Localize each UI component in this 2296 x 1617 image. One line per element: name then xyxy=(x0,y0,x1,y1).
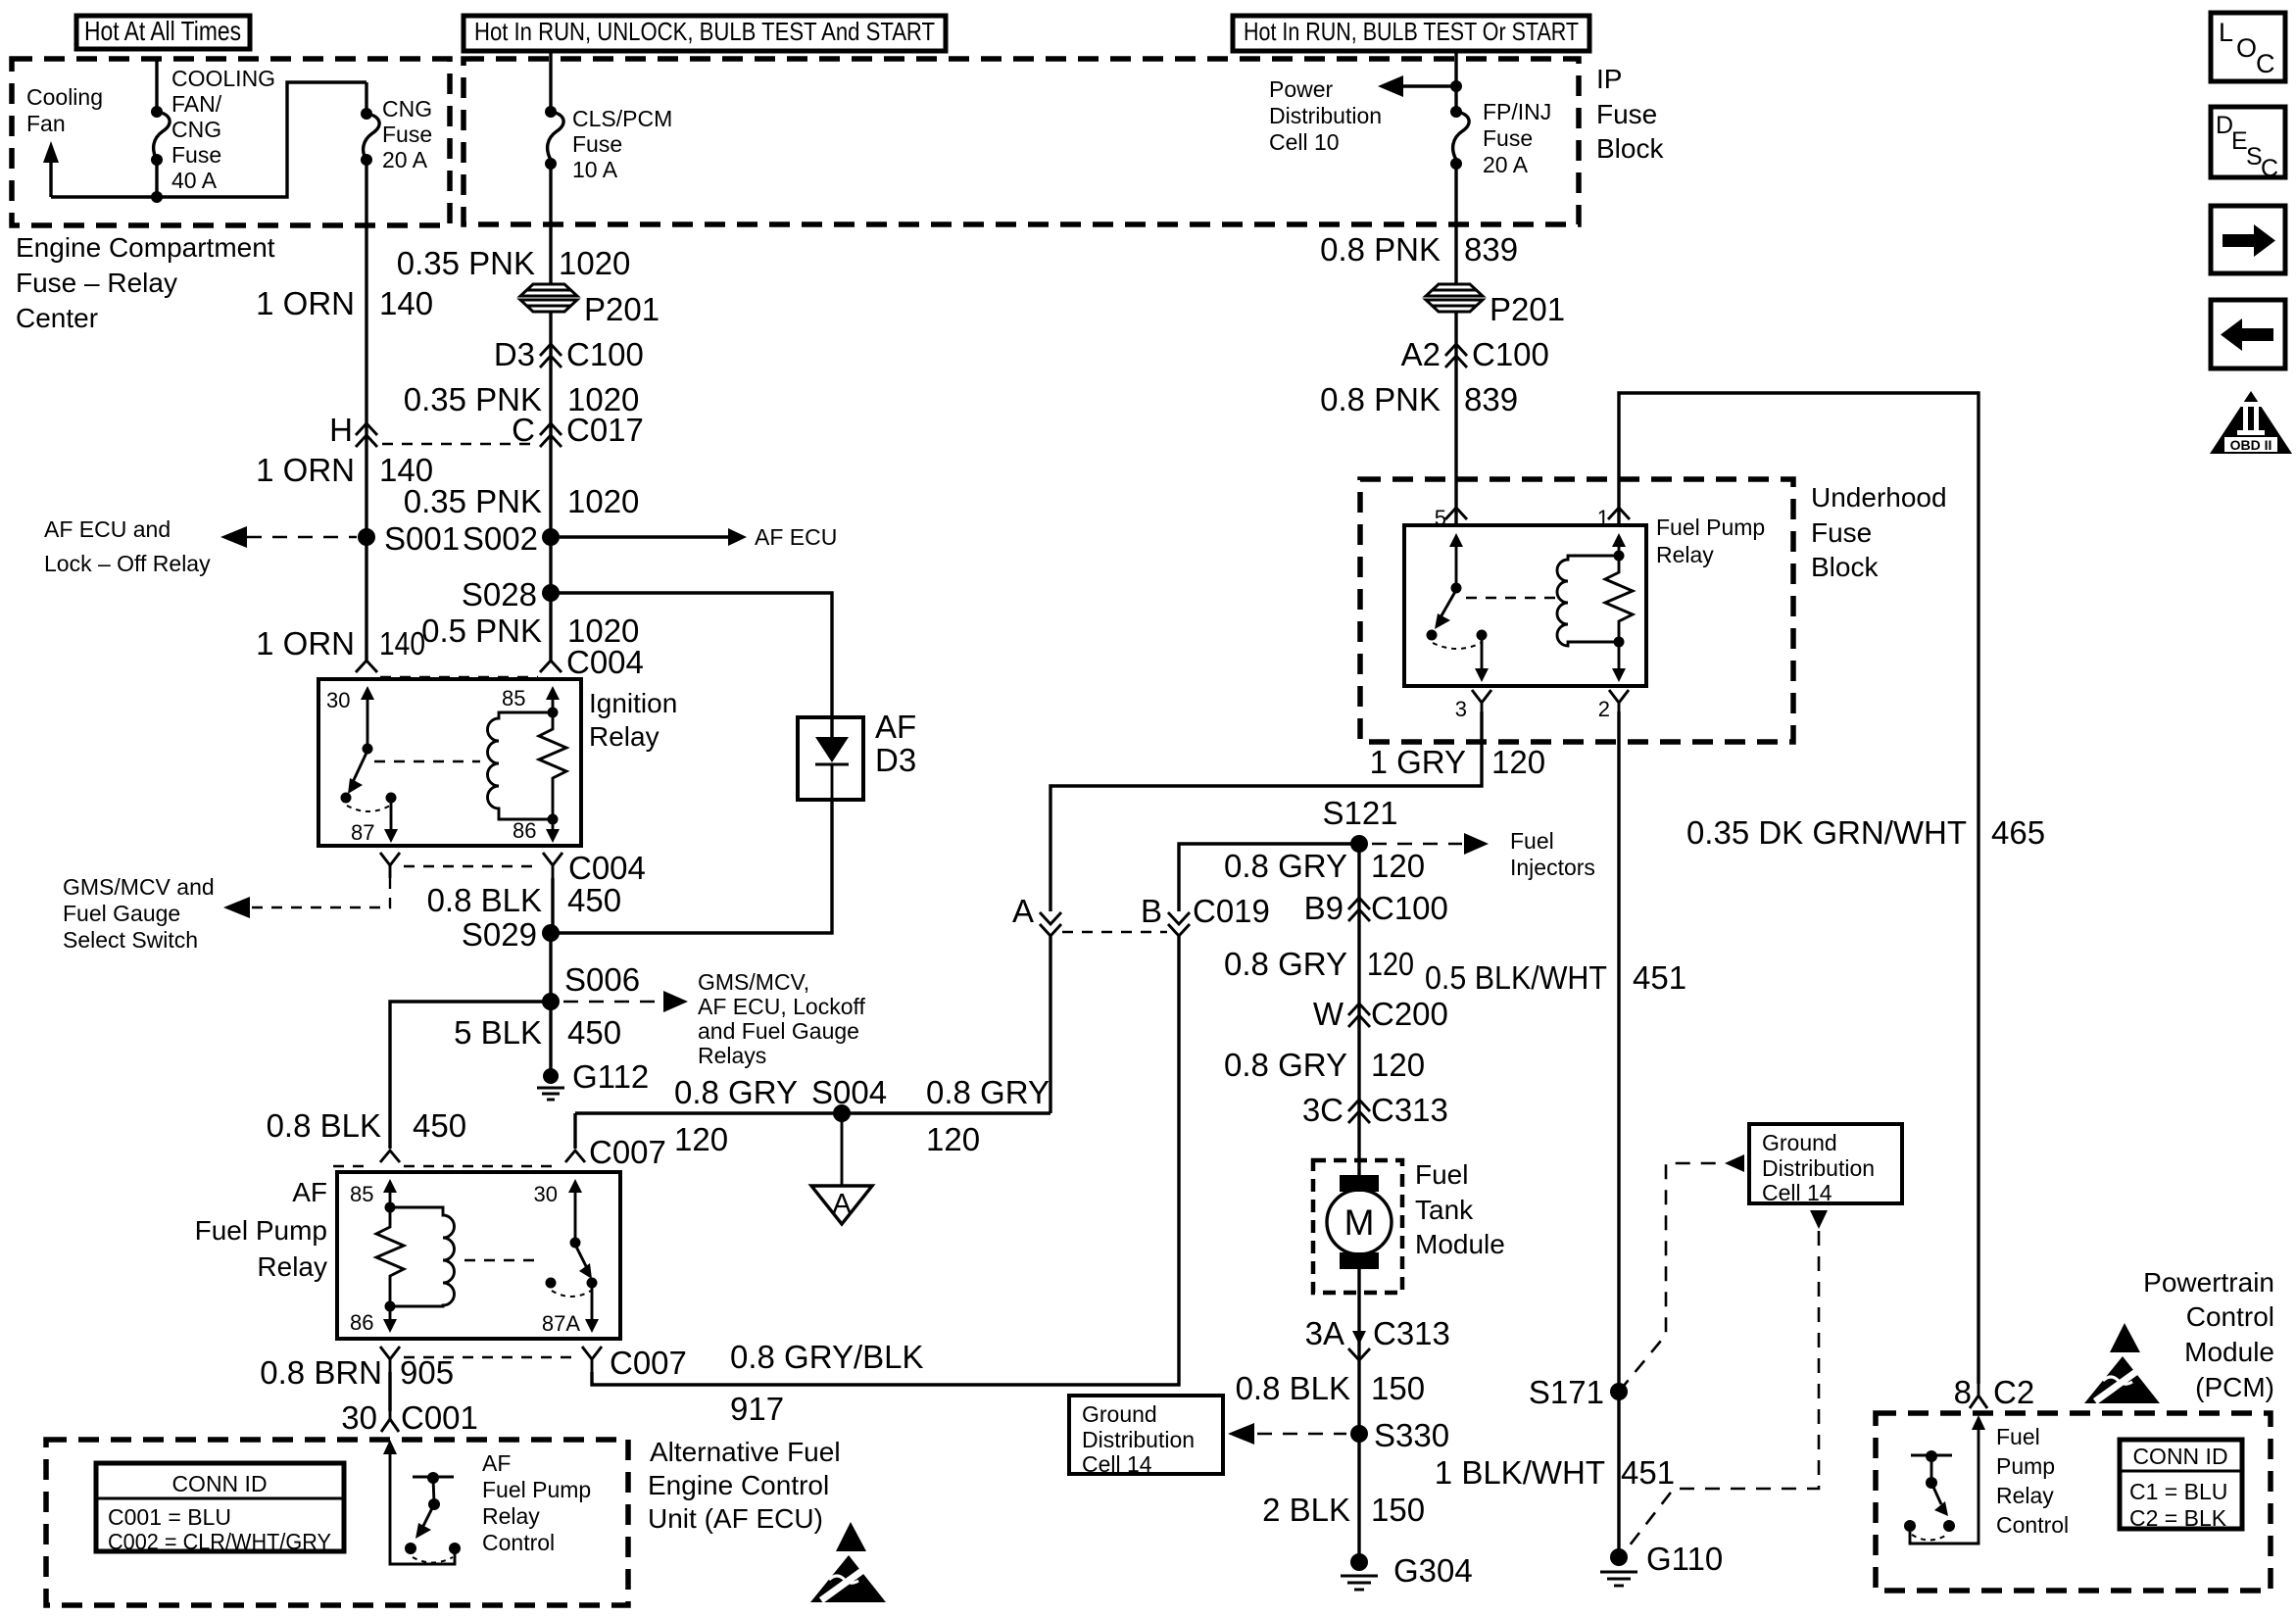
PCM dashed box xyxy=(1876,1413,2271,1591)
svg-text:AF ECU and: AF ECU and xyxy=(44,516,171,542)
svg-text:86: 86 xyxy=(350,1310,373,1335)
ignition relay coil bottom node xyxy=(548,814,559,825)
AF relay pin 86 xyxy=(350,1306,397,1335)
svg-text:A: A xyxy=(832,1189,852,1220)
svg-text:Engine Control: Engine Control xyxy=(648,1470,829,1500)
svg-text:C004: C004 xyxy=(566,644,644,680)
svg-text:GMS/MCV and: GMS/MCV and xyxy=(63,874,215,900)
svg-text:Fuse: Fuse xyxy=(1483,125,1533,151)
ignition relay pin 86 xyxy=(513,818,560,843)
svg-text:Module: Module xyxy=(2184,1337,2274,1367)
svg-text:S029: S029 xyxy=(462,916,537,953)
svg-text:C: C xyxy=(2261,155,2278,182)
svg-text:AF: AF xyxy=(292,1177,327,1207)
svg-text:85: 85 xyxy=(502,686,525,710)
splice S171 xyxy=(1529,1374,1628,1410)
wire below P201 xyxy=(549,311,552,662)
wire: S121 branch to C019 B xyxy=(1179,844,1359,911)
label: CNG Fuse 20 A xyxy=(382,96,432,172)
svg-text:150: 150 xyxy=(1371,1370,1425,1406)
Underhood Fuse Block dashed box xyxy=(1360,479,1793,742)
splice S006 xyxy=(542,961,640,1010)
svg-text:Fuel Pump: Fuel Pump xyxy=(195,1215,327,1246)
svg-text:Fuse – Relay: Fuse – Relay xyxy=(16,268,177,298)
svg-text:CLS/PCM: CLS/PCM xyxy=(572,106,672,131)
svg-text:Tank: Tank xyxy=(1415,1195,1474,1225)
svg-text:150: 150 xyxy=(1371,1492,1425,1528)
connector C019 A xyxy=(1012,893,1061,936)
dashed reference arrow to Fuel Injectors xyxy=(1372,828,1595,880)
wire: S028 to diode AF D3 xyxy=(551,593,832,737)
diode AF D3 xyxy=(798,709,916,800)
connector D3 C100 xyxy=(494,336,644,372)
svg-text:20 A: 20 A xyxy=(1483,152,1529,177)
svg-text:0.8 GRY/BLK: 0.8 GRY/BLK xyxy=(730,1339,924,1375)
Ground Distribution Cell 14 box (left) xyxy=(1069,1396,1223,1477)
icon: left arrow xyxy=(2211,300,2285,368)
wire: 0.8 BRN 905 xyxy=(388,1372,391,1411)
svg-text:(PCM): (PCM) xyxy=(2195,1372,2274,1402)
svg-text:Block: Block xyxy=(1811,552,1879,582)
svg-text:Control: Control xyxy=(482,1530,555,1555)
svg-text:C007: C007 xyxy=(610,1345,687,1381)
svg-text:GMS/MCV,: GMS/MCV, xyxy=(698,969,809,995)
AF ECU relay control switch xyxy=(405,1472,461,1563)
svg-text:Relay: Relay xyxy=(257,1251,327,1282)
svg-text:120: 120 xyxy=(1371,848,1425,884)
svg-text:Relay: Relay xyxy=(589,721,659,752)
label box: Hot In RUN, BULB TEST Or START xyxy=(1233,16,1589,51)
svg-text:Relays: Relays xyxy=(698,1043,766,1068)
icon: LOC xyxy=(2211,13,2285,81)
svg-text:FAN/: FAN/ xyxy=(171,91,222,117)
fuse: CLS/PCM Fuse 10 A xyxy=(545,51,563,170)
Fuel Tank Module dashed box xyxy=(1313,1160,1402,1293)
label: 1 ORN 140 (lower) xyxy=(256,625,425,661)
connector C004 (relay top) xyxy=(356,644,644,680)
svg-text:1020: 1020 xyxy=(567,483,639,519)
fuel pump relay pin 1 xyxy=(1597,506,1630,562)
label: CLS/PCM Fuse 10 A xyxy=(572,106,672,182)
label: AF ECU and Lock-Off Relay xyxy=(44,516,211,576)
svg-text:Hot In RUN, UNLOCK, BULB TEST: Hot In RUN, UNLOCK, BULB TEST And START xyxy=(474,17,935,46)
svg-text:Center: Center xyxy=(16,303,98,333)
connector C019 jumper xyxy=(1062,931,1167,933)
label: 0.5 BLK/WHT 451 xyxy=(1425,959,1686,996)
svg-text:P201: P201 xyxy=(1490,291,1565,327)
fuel pump relay actuator dashed link xyxy=(1466,597,1560,599)
svg-text:Distribution: Distribution xyxy=(1082,1427,1195,1452)
icon: DESC xyxy=(2211,107,2285,182)
wire: 0.35 PNK 1020 (to P201) xyxy=(549,164,552,284)
CONN ID table (AF ECU) xyxy=(96,1463,344,1554)
svg-text:C100: C100 xyxy=(566,336,644,372)
wire: cooling fan feed xyxy=(51,82,366,197)
svg-text:451: 451 xyxy=(1621,1454,1675,1491)
svg-text:Fuse: Fuse xyxy=(382,122,432,147)
PCM fuel pump relay control switch xyxy=(1904,1450,1955,1541)
ignition relay switch arm xyxy=(341,751,397,811)
splice S330 xyxy=(1350,1417,1449,1453)
fuel pump relay pin 5 xyxy=(1435,506,1467,594)
arrow: S002 to AF ECU xyxy=(551,524,837,550)
svg-text:0.8 GRY: 0.8 GRY xyxy=(1224,946,1347,982)
label: 0.8 BLK 450 (2nd) xyxy=(267,1107,466,1144)
svg-text:CONN ID: CONN ID xyxy=(171,1471,267,1496)
svg-text:0.8 GRY: 0.8 GRY xyxy=(1224,1047,1347,1083)
AF relay coil xyxy=(390,1207,455,1306)
wire: 0.8 GRY/BLK 917 (87A to C019 B) xyxy=(592,935,1179,1385)
svg-text:120: 120 xyxy=(674,1121,728,1157)
label: 0.8 BLK 150 xyxy=(1236,1370,1425,1406)
svg-text:W: W xyxy=(1313,996,1344,1032)
svg-text:CNG: CNG xyxy=(171,117,221,142)
svg-text:Fuse: Fuse xyxy=(572,131,622,157)
svg-text:0.35 PNK: 0.35 PNK xyxy=(404,483,542,519)
splice S004 xyxy=(811,1074,887,1122)
wire: S004 branch down to AF relay pin 30 xyxy=(573,1113,576,1149)
label: Engine Compartment Fuse-Relay Center xyxy=(16,232,275,333)
arrow: Power Distribution Cell 10 xyxy=(1378,75,1462,97)
svg-text:C100: C100 xyxy=(1472,336,1549,372)
splice S002 xyxy=(463,520,560,557)
AF relay pin 85 xyxy=(350,1179,397,1213)
fuse: FP/INJ Fuse 20 A xyxy=(1450,51,1469,170)
svg-text:AF: AF xyxy=(875,709,916,745)
splice S028 xyxy=(462,576,560,612)
svg-text:1 ORN: 1 ORN xyxy=(256,285,355,321)
svg-text:0.8 BLK: 0.8 BLK xyxy=(267,1107,381,1144)
relay: AF Fuel Pump Relay box xyxy=(337,1172,620,1339)
svg-text:120: 120 xyxy=(1367,946,1414,982)
svg-text:0.8 BLK: 0.8 BLK xyxy=(1236,1370,1350,1406)
svg-text:Engine Compartment: Engine Compartment xyxy=(16,232,275,263)
Ground Distribution Cell 14 box (right) xyxy=(1749,1124,1902,1205)
svg-text:C1 = BLU: C1 = BLU xyxy=(2129,1479,2227,1504)
label box: Hot At All Times xyxy=(76,16,250,49)
connector B9 C100 xyxy=(1304,890,1448,926)
svg-text:OBD II: OBD II xyxy=(2230,437,2272,453)
splice S001 xyxy=(358,520,460,557)
ground G110 xyxy=(1600,1541,1723,1586)
connector C019 B xyxy=(1141,893,1270,936)
label: 5 BLK 450 xyxy=(454,1014,621,1051)
svg-text:B9: B9 xyxy=(1304,890,1343,926)
fuel pump motor M xyxy=(1327,1175,1392,1269)
connector W C200 xyxy=(1313,996,1448,1032)
wire: 0.8 GRY 120 column xyxy=(1357,844,1360,1176)
ignition relay pin 85 xyxy=(502,686,560,718)
label: 1 BLK/WHT 451 xyxy=(1435,1454,1675,1491)
label: COOLING FAN/CNG Fuse 40 A xyxy=(171,66,275,193)
svg-text:Hot In RUN, BULB TEST Or START: Hot In RUN, BULB TEST Or START xyxy=(1244,17,1579,46)
svg-text:FP/INJ: FP/INJ xyxy=(1483,99,1551,124)
svg-text:2: 2 xyxy=(1598,697,1610,721)
label: Fuel Pump Relay Control xyxy=(1996,1424,2069,1538)
ground G304 xyxy=(1341,1552,1473,1590)
svg-text:Fuel: Fuel xyxy=(1510,828,1554,854)
ESD symbol (AF ECU) xyxy=(810,1522,886,1602)
IP Fuse Block dashed box xyxy=(464,59,1579,224)
connector 3C C313 xyxy=(1302,1092,1448,1128)
wire: 0.8 PNK 839 xyxy=(1454,164,1457,284)
svg-text:3C: 3C xyxy=(1302,1092,1343,1128)
label: 0.8 GRY/BLK 917 xyxy=(730,1339,924,1427)
svg-text:D3: D3 xyxy=(875,742,916,778)
svg-text:Fuse: Fuse xyxy=(1596,99,1657,129)
ground G112 xyxy=(537,1058,649,1100)
svg-text:0.8 GRY: 0.8 GRY xyxy=(926,1074,1050,1110)
svg-text:Cell 14: Cell 14 xyxy=(1082,1451,1152,1477)
wire: into AF ECU (relay control) xyxy=(383,1440,455,1564)
connector C (C017) xyxy=(512,412,644,448)
svg-text:Fuel Pump: Fuel Pump xyxy=(482,1477,591,1502)
svg-text:S121: S121 xyxy=(1322,795,1397,831)
svg-text:3A: 3A xyxy=(1305,1315,1344,1351)
label: 0.8 GRY 120 (c) xyxy=(1224,1047,1425,1083)
label: 0.35 PNK 1020 (2nd) xyxy=(404,381,640,417)
splice S029 xyxy=(462,916,560,953)
svg-text:0.35 DK GRN/WHT: 0.35 DK GRN/WHT xyxy=(1686,814,1967,851)
ESD symbol (PCM) xyxy=(2084,1323,2160,1403)
svg-text:Pump: Pump xyxy=(1996,1453,2055,1479)
svg-text:450: 450 xyxy=(567,1014,621,1051)
svg-text:S002: S002 xyxy=(463,520,538,557)
svg-text:Underhood: Underhood xyxy=(1811,482,1947,513)
svg-text:C007: C007 xyxy=(589,1134,666,1170)
fuse: CNG Fuse 20 A xyxy=(361,82,379,166)
svg-text:Cell 14: Cell 14 xyxy=(1762,1180,1832,1205)
svg-text:0.8 PNK: 0.8 PNK xyxy=(1320,381,1441,417)
connector C007 (AF relay top) xyxy=(333,1134,666,1170)
svg-text:1 BLK/WHT: 1 BLK/WHT xyxy=(1435,1454,1605,1491)
relay: Ignition Relay box xyxy=(318,679,581,846)
connector 3A C313 xyxy=(1305,1315,1450,1360)
label: 1 ORN 140 (mid) xyxy=(256,452,433,488)
label: GMS/MCV, AF ECU, Lockoff and Fuel Gauge Relays xyxy=(698,969,865,1068)
svg-text:C200: C200 xyxy=(1371,996,1448,1032)
dashed reference: S171 to Ground Distribution Cell 14 xyxy=(1619,1154,1744,1392)
svg-text:C002 = CLR/WHT/GRY: C002 = CLR/WHT/GRY xyxy=(108,1529,331,1554)
ignition relay coil xyxy=(487,712,553,819)
svg-text:C313: C313 xyxy=(1373,1315,1450,1351)
wire: 0.8 GRY 120 S004 run xyxy=(575,1111,1050,1114)
svg-text:C100: C100 xyxy=(1371,890,1448,926)
svg-text:and Fuel Gauge: and Fuel Gauge xyxy=(698,1018,859,1044)
label: AF Fuel Pump Relay Control xyxy=(482,1450,591,1555)
fuel pump relay pin 3 xyxy=(1455,637,1491,721)
svg-text:10 A: 10 A xyxy=(572,157,618,182)
svg-text:30: 30 xyxy=(326,688,350,712)
dashed reference arrow to GMS/MCV and Fuel Gauge Select Switch xyxy=(223,878,390,918)
svg-text:1020: 1020 xyxy=(559,245,630,281)
svg-text:H: H xyxy=(329,412,353,448)
AF relay coil bottom node xyxy=(385,1301,396,1312)
svg-text:Hot At All Times: Hot At All Times xyxy=(84,16,241,46)
wire: fuel pump relay pin 1 to PCM feed xyxy=(1619,393,1978,1384)
svg-text:G304: G304 xyxy=(1393,1552,1473,1589)
AF relay pin 30 xyxy=(534,1179,582,1249)
svg-text:905: 905 xyxy=(400,1354,454,1391)
wire below P201 (right) xyxy=(1454,311,1457,525)
svg-text:S330: S330 xyxy=(1374,1417,1449,1453)
connector 30 C001 xyxy=(341,1399,478,1436)
svg-text:G112: G112 xyxy=(572,1058,649,1095)
wire: C019 A to S004 run xyxy=(1049,936,1051,1113)
svg-text:Relay: Relay xyxy=(1656,542,1714,567)
fuel pump relay switch arm xyxy=(1427,590,1488,649)
label: 0.8 PNK 839 xyxy=(1320,231,1518,268)
svg-text:Fuel Pump: Fuel Pump xyxy=(1656,514,1765,540)
svg-text:120: 120 xyxy=(1371,1047,1425,1083)
arrow to Cooling Fan xyxy=(43,141,59,197)
label: 0.8 PNK 839 (2nd) xyxy=(1320,381,1518,417)
svg-text:Powertrain: Powertrain xyxy=(2143,1267,2274,1298)
svg-text:Fuel: Fuel xyxy=(1996,1424,2040,1449)
off-page triangle A xyxy=(811,1113,872,1224)
connector C007 (AF relay bottom) xyxy=(380,1345,687,1381)
svg-text:Relay: Relay xyxy=(482,1503,540,1529)
label: Powertrain Control Module (PCM) xyxy=(2143,1267,2274,1402)
label: 2 BLK 150 xyxy=(1262,1492,1425,1528)
svg-text:85: 85 xyxy=(350,1182,373,1206)
svg-text:A: A xyxy=(1012,893,1034,929)
svg-text:5: 5 xyxy=(1435,506,1446,530)
svg-text:450: 450 xyxy=(567,882,621,918)
svg-text:C2 = BLK: C2 = BLK xyxy=(2129,1505,2227,1531)
label: Power Distribution Cell 10 xyxy=(1269,76,1382,155)
svg-text:Ground: Ground xyxy=(1762,1130,1837,1155)
svg-text:140: 140 xyxy=(379,285,433,321)
svg-text:2 BLK: 2 BLK xyxy=(1262,1492,1350,1528)
svg-text:451: 451 xyxy=(1633,959,1686,996)
label: Underhood Fuse Block xyxy=(1811,482,1947,582)
Engine Compartment Fuse-Relay Center dashed box xyxy=(12,59,450,225)
svg-text:Power: Power xyxy=(1269,76,1334,102)
svg-text:Lock – Off Relay: Lock – Off Relay xyxy=(44,551,211,576)
svg-text:Ignition: Ignition xyxy=(589,688,677,718)
svg-text:87A: 87A xyxy=(542,1311,580,1336)
svg-text:1: 1 xyxy=(1597,506,1609,530)
svg-text:S028: S028 xyxy=(462,576,537,612)
CONN ID table (PCM) xyxy=(2120,1440,2242,1531)
label: Fuel Pump Relay xyxy=(1656,514,1765,567)
fuel pump relay coil bottom node xyxy=(1614,637,1625,648)
connector H (C017) xyxy=(329,412,377,448)
label box: Hot In RUN, UNLOCK, BULB TEST And START xyxy=(464,16,946,51)
connector A2 C100 xyxy=(1401,336,1549,372)
svg-text:917: 917 xyxy=(730,1391,784,1427)
svg-text:0.8 GRY: 0.8 GRY xyxy=(1224,848,1347,884)
svg-text:1 GRY: 1 GRY xyxy=(1370,744,1466,780)
svg-text:0.35 PNK: 0.35 PNK xyxy=(397,245,535,281)
svg-text:Injectors: Injectors xyxy=(1510,855,1595,880)
svg-text:0.8 BRN: 0.8 BRN xyxy=(260,1354,382,1391)
label: 1 GRY 120 xyxy=(1370,744,1546,780)
svg-text:C001 = BLU: C001 = BLU xyxy=(108,1504,231,1530)
inline connector P201 (left) xyxy=(520,284,659,327)
label: 0.35 PNK 1020 (3rd) xyxy=(404,483,640,519)
svg-text:1 ORN: 1 ORN xyxy=(256,625,355,661)
label: GMS/MCV and Fuel Gauge Select Switch xyxy=(63,874,215,953)
icon: right arrow xyxy=(2211,206,2285,273)
svg-text:Cell 10: Cell 10 xyxy=(1269,129,1340,155)
wire: S006 left to AF relay pin 85 xyxy=(390,1002,551,1149)
svg-text:C017: C017 xyxy=(566,412,644,448)
svg-text:S001: S001 xyxy=(384,520,460,557)
svg-text:C019: C019 xyxy=(1193,893,1270,929)
svg-text:P201: P201 xyxy=(584,291,659,327)
icon: OBD II triangle xyxy=(2210,391,2292,454)
wire: 0.8 BLK 450 (pin 86 to S029) xyxy=(551,878,554,933)
svg-text:1 ORN: 1 ORN xyxy=(256,452,355,488)
svg-text:20 A: 20 A xyxy=(382,147,428,172)
svg-text:G110: G110 xyxy=(1646,1541,1723,1577)
svg-text:0.5 PNK: 0.5 PNK xyxy=(421,612,542,649)
svg-text:8: 8 xyxy=(1954,1374,1972,1410)
label: 1 ORN 140 (upper) xyxy=(256,285,433,321)
AF relay actuator dashed link xyxy=(464,1259,541,1261)
svg-text:40 A: 40 A xyxy=(171,168,218,193)
svg-text:M: M xyxy=(1344,1202,1375,1243)
label: IP Fuse Block xyxy=(1596,64,1664,164)
svg-text:AF ECU: AF ECU xyxy=(755,524,837,550)
svg-text:120: 120 xyxy=(1491,744,1545,780)
svg-text:0.8 PNK: 0.8 PNK xyxy=(1320,231,1441,268)
label: 0.35 PNK 1020 xyxy=(397,245,631,281)
dashed reference: Ground Distribution Cell 14 to G110 xyxy=(1626,1210,1828,1550)
svg-text:S004: S004 xyxy=(811,1074,887,1110)
label: Ignition Relay xyxy=(589,688,677,752)
wire: 5 BLK 450 (S029 to G112) xyxy=(549,933,552,1076)
svg-text:30: 30 xyxy=(534,1182,558,1206)
ignition relay pin 87 xyxy=(351,800,398,845)
svg-text:S171: S171 xyxy=(1529,1374,1604,1410)
fuse: COOLING FAN/CNG Fuse 40 A xyxy=(151,59,170,203)
svg-text:C: C xyxy=(512,412,535,448)
svg-text:C001: C001 xyxy=(401,1399,478,1436)
label: AF Fuel Pump Relay xyxy=(195,1177,327,1282)
fuel pump relay coil xyxy=(1557,556,1619,646)
fuel pump relay pin 2 xyxy=(1598,642,1629,721)
dashed reference arrow to GMS/MCV, AF ECU, Lockoff and Fuel Gauge Relays xyxy=(563,991,688,1012)
svg-text:C2: C2 xyxy=(1993,1374,2034,1410)
svg-text:Alternative Fuel: Alternative Fuel xyxy=(650,1437,841,1467)
wire: into PCM (fuel pump relay control) xyxy=(1910,1415,1985,1543)
connector boundary dashes H-C xyxy=(382,443,539,445)
svg-text:COOLING: COOLING xyxy=(171,66,275,91)
wire: 1 ORN 140 xyxy=(365,160,367,662)
svg-text:Fan: Fan xyxy=(26,111,66,136)
label: 0.35 DK GRN/WHT 465 xyxy=(1686,814,2045,851)
svg-text:Block: Block xyxy=(1596,133,1664,164)
svg-text:839: 839 xyxy=(1464,231,1518,268)
AF ECU dashed box xyxy=(46,1440,628,1605)
svg-text:5 BLK: 5 BLK xyxy=(454,1014,542,1051)
svg-text:CONN ID: CONN ID xyxy=(2132,1444,2227,1469)
svg-text:87: 87 xyxy=(351,820,374,845)
svg-text:0.5 BLK/WHT: 0.5 BLK/WHT xyxy=(1425,959,1607,996)
svg-text:Module: Module xyxy=(1415,1229,1505,1259)
svg-text:Select Switch: Select Switch xyxy=(63,927,198,953)
svg-text:Unit (AF ECU): Unit (AF ECU) xyxy=(648,1503,823,1534)
relay: Fuel Pump Relay box xyxy=(1404,525,1646,686)
connector C004 (relay bottom) xyxy=(380,850,646,886)
labels: 0.8 GRY 120 / 0.8 GRY 120 (S004 run) xyxy=(674,1074,1050,1157)
label: FP/INJ Fuse 20 A xyxy=(1483,99,1551,177)
svg-text:Cooling: Cooling xyxy=(26,84,103,110)
AF relay pin 87A xyxy=(542,1285,599,1336)
